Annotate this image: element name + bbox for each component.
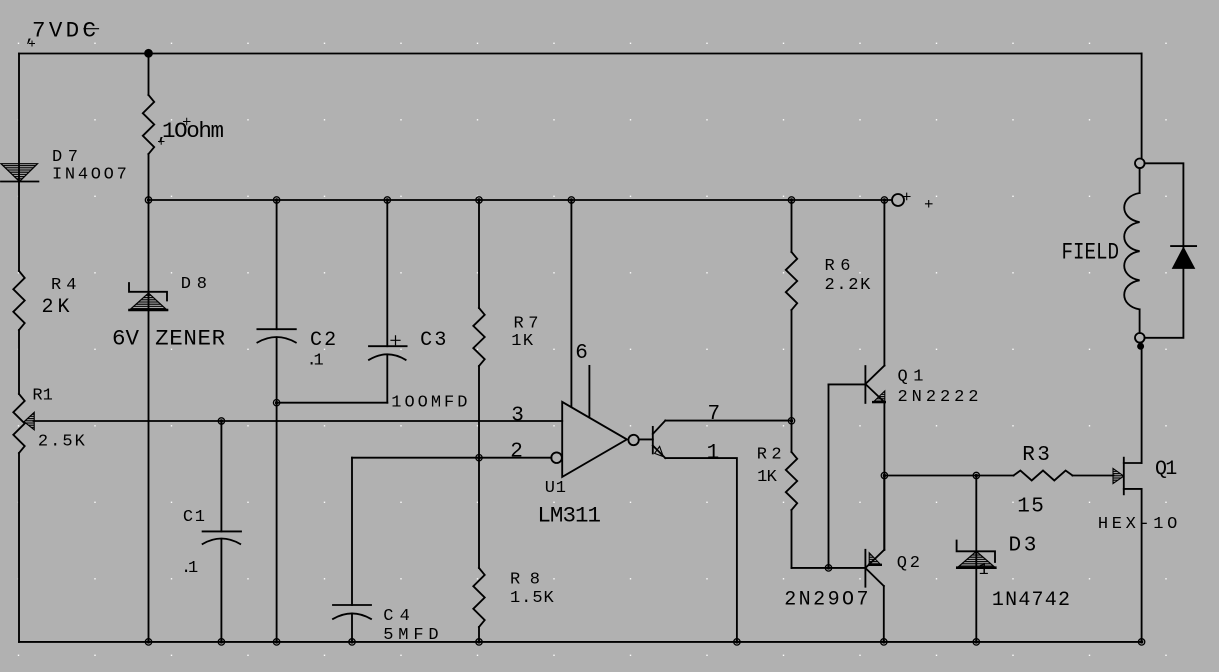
- label pin 2: [510, 441, 523, 464]
- wire Q2 base: [792, 567, 866, 569]
- junction Q1 emitter node: [881, 472, 887, 478]
- svg-text:,: ,: [25, 28, 35, 47]
- svg-text:Q1: Q1: [1155, 458, 1177, 481]
- svg-text:U1: U1: [545, 479, 566, 498]
- label 6V ZENER: [112, 326, 225, 352]
- zener diode D3: [975, 476, 977, 642]
- junction wiper line/C1: [218, 418, 224, 424]
- svg-text:15: 15: [1017, 496, 1044, 519]
- svg-text:1K: 1K: [757, 468, 777, 487]
- svg-text:1.5K: 1.5K: [510, 589, 554, 608]
- transistor Q1 2N2222: [829, 200, 885, 403]
- svg-text:ZENER: ZENER: [155, 326, 225, 352]
- junction pin7/R6-R2: [788, 418, 794, 424]
- label C1 .1: [181, 508, 205, 578]
- node 7VDC label: [25, 18, 96, 48]
- label D3 1N4742: [992, 535, 1070, 613]
- label R1 2.5K: [32, 386, 85, 451]
- junction dot below field: [1138, 343, 1144, 349]
- svg-text:LM311: LM311: [537, 503, 601, 529]
- resistor 10ohm: [148, 54, 150, 96]
- label pin 6: [575, 342, 588, 365]
- label C2 .1: [307, 329, 337, 371]
- wire R1 wiper to pin 3: [34, 420, 563, 422]
- wiper arrow R1: [24, 412, 34, 429]
- terminal circle field top: [1135, 159, 1145, 169]
- label Q2 2N2907: [784, 554, 920, 611]
- wire pin 7 to R6/R2 node: [665, 420, 791, 422]
- junction ground/C2: [273, 639, 279, 645]
- svg-text:6: 6: [575, 342, 588, 365]
- junction ground/zener branch: [145, 639, 151, 645]
- flyback diode: [1171, 246, 1196, 268]
- junction ground/Q2 collector: [881, 639, 887, 645]
- op-amp U1 triangle: [562, 402, 627, 477]
- wire pin 1 to ground rail: [665, 458, 737, 642]
- label C4 5MFD: [383, 607, 438, 645]
- pin 2 input circle: [551, 452, 562, 463]
- junction dot at 7VDC rail: [144, 49, 153, 58]
- svg-text:1N4742: 1N4742: [992, 589, 1070, 612]
- junction ground/C1: [218, 639, 224, 645]
- junction ground/C4: [349, 639, 355, 645]
- wire bus y=200: [149, 199, 892, 201]
- label R7 1K: [511, 315, 538, 352]
- label R4 2K: [42, 276, 77, 319]
- junction bus/R6: [788, 197, 794, 203]
- label pin 1: [707, 442, 720, 465]
- label 10ohm: [157, 118, 224, 146]
- label R8 1.5K: [510, 571, 554, 608]
- junction Q2 base/Q1 base wire: [825, 565, 831, 571]
- label FIELD: [1062, 240, 1120, 266]
- svg-text:2.5K: 2.5K: [38, 433, 86, 452]
- resistor R2: [786, 452, 797, 510]
- label pin 3: [511, 405, 524, 428]
- svg-text:3: 3: [511, 405, 524, 428]
- wire flyback branch: [1145, 163, 1184, 337]
- wire pin 2: [352, 457, 551, 459]
- label LM311: [537, 503, 601, 529]
- wire pin 6 from bus: [570, 200, 572, 407]
- label R2 1K: [757, 446, 782, 487]
- op-amp output circle: [628, 435, 638, 445]
- label pin 7: [708, 403, 721, 426]
- capacitor C3: [386, 200, 388, 346]
- svg-text:2: 2: [510, 441, 523, 464]
- label U1: [545, 479, 566, 498]
- transistor Q2 2N2907: [865, 476, 884, 642]
- svg-text:1: 1: [314, 352, 324, 371]
- wire source to bottom rail: [1141, 489, 1143, 642]
- resistor R8: [473, 568, 484, 627]
- capacitor C1: [220, 421, 222, 531]
- pin 5 stub: [588, 366, 590, 416]
- zener diode D8: [148, 200, 150, 642]
- svg-text:1: 1: [707, 442, 720, 465]
- label D7 IN4007: [52, 148, 127, 185]
- inductor FIELD: [1139, 168, 1141, 193]
- svg-text:1: 1: [979, 561, 989, 580]
- junction D3/R3 node: [973, 472, 979, 478]
- svg-text:,: ,: [157, 127, 167, 146]
- label Q1 HEX-10: [1098, 458, 1177, 534]
- svg-text:FIELD: FIELD: [1062, 240, 1120, 266]
- svg-text:1K: 1K: [511, 332, 534, 351]
- wire C2-C3 link: [277, 402, 388, 404]
- terminal circle +: [892, 194, 904, 206]
- diode D7: [1, 164, 38, 182]
- junction bus/R7: [476, 197, 482, 203]
- svg-text:1Oohm: 1Oohm: [162, 118, 224, 144]
- junction bus/Q1 collector: [881, 197, 887, 203]
- wire R3 to gate: [1073, 475, 1114, 477]
- resistor R4: [13, 271, 24, 330]
- junction C2/C3 link: [273, 400, 279, 406]
- label R3 15: [1017, 444, 1050, 519]
- svg-text:1: 1: [188, 559, 198, 578]
- resistor R7: [478, 200, 480, 308]
- output transistor of U1: [639, 421, 666, 459]
- wire top power rail 7VDC: [19, 53, 1142, 55]
- wire bottom ground rail: [19, 641, 1142, 643]
- label C3 100MFD: [391, 329, 467, 413]
- junction ground/Q1 source: [1138, 639, 1144, 645]
- wire right vertical to drain: [1141, 343, 1143, 463]
- resistor R6: [791, 200, 793, 252]
- junction ground/pin1: [734, 639, 740, 645]
- MOSFET Q1 HEX-10: [1113, 458, 1142, 495]
- label R6 2.2K: [825, 257, 872, 295]
- junction bus/C3: [384, 197, 390, 203]
- svg-text:6V: 6V: [112, 326, 139, 352]
- junction bus/C2: [273, 197, 279, 203]
- wire Q1 base down: [828, 384, 830, 568]
- junction pin2/R7-R8: [476, 455, 482, 461]
- label Q1 2N2222: [898, 368, 979, 407]
- stray 1 mark on D3: [979, 561, 989, 580]
- terminal circle field bottom: [1135, 333, 1145, 343]
- potentiometer R1: [13, 394, 24, 453]
- junction ground/R8: [476, 639, 482, 645]
- svg-text:2.2K: 2.2K: [825, 276, 872, 295]
- label D8: [181, 275, 207, 294]
- capacitor C2: [276, 200, 278, 329]
- capacitor C4: [351, 458, 353, 605]
- svg-text:7: 7: [708, 403, 721, 426]
- wire right vertical top: [1141, 54, 1143, 159]
- junction bus/pin6: [568, 197, 574, 203]
- wire Q1 emitter down: [883, 403, 885, 550]
- svg-text:R1: R1: [32, 386, 52, 405]
- junction ground/D3: [973, 639, 979, 645]
- wire emitter node y=475: [884, 475, 1013, 477]
- junction bus/zener branch: [145, 197, 151, 203]
- svg-text:C1: C1: [183, 508, 205, 527]
- resistor R3: [1014, 471, 1073, 481]
- wire left vertical rail: [18, 54, 20, 642]
